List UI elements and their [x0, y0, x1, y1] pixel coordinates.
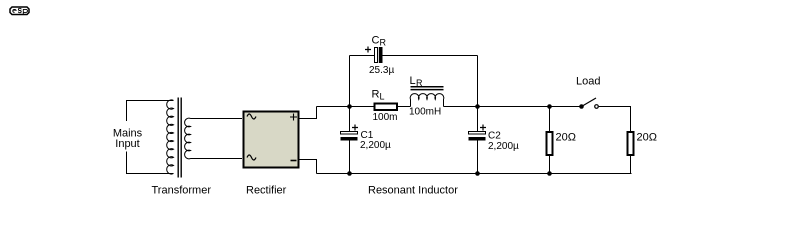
svg-text:R: R [380, 38, 387, 48]
svg-text:Resonant Inductor: Resonant Inductor [368, 185, 458, 197]
svg-text:Transformer: Transformer [152, 185, 212, 197]
logo ESP [10, 7, 29, 15]
svg-text:L: L [380, 92, 385, 102]
inductor LR core [411, 87, 444, 90]
wire secondary to rectifier (bottom) [191, 158, 243, 160]
resistor R1 20 ohm vertical [547, 107, 553, 174]
transformer T1 secondary winding [185, 118, 191, 159]
capacitor CR [365, 47, 383, 64]
resistor RL [375, 104, 398, 111]
svg-text:2,200µ: 2,200µ [488, 141, 519, 152]
capacitor C2 [469, 125, 487, 141]
junction dot top rail C1 [347, 104, 352, 109]
wire rectifier + output [299, 107, 317, 119]
svg-text:R: R [416, 78, 423, 88]
junction dot top rail C2 [475, 104, 480, 109]
junction dot bottom rail R1 [547, 171, 552, 176]
svg-text:2,200µ: 2,200µ [360, 140, 391, 151]
rectifier BR1 [244, 112, 299, 168]
transformer T1 primary winding [167, 100, 174, 174]
svg-text:100m: 100m [373, 112, 398, 123]
svg-text:20Ω: 20Ω [556, 132, 576, 144]
svg-text:100mH: 100mH [409, 107, 441, 118]
resistor R2 20 ohm vertical [628, 132, 634, 174]
wire CR branch left vertical [349, 56, 351, 174]
inductor LR winding [410, 94, 444, 107]
svg-text:Rectifier: Rectifier [246, 185, 287, 197]
svg-text:Load: Load [576, 76, 600, 88]
svg-text:25.3µ: 25.3µ [369, 65, 394, 76]
switch SW1 [579, 98, 598, 109]
capacitor C1 [341, 125, 359, 141]
svg-text:C: C [372, 35, 380, 47]
junction dot top rail R1 [547, 104, 552, 109]
wire rectifier - output [299, 160, 317, 174]
wire bottom rail [317, 173, 632, 175]
svg-text:C2: C2 [488, 131, 501, 142]
svg-text:20Ω: 20Ω [637, 132, 657, 144]
junction dot bottom rail C1 [347, 171, 352, 176]
wire secondary to rectifier (top) [191, 118, 243, 120]
transformer T1 core [178, 98, 181, 178]
wire CR branch right vertical [477, 56, 479, 174]
svg-text:L: L [410, 75, 416, 87]
wire switch to R2 [599, 107, 631, 132]
wire top rail [317, 106, 582, 108]
junction dot bottom rail C2 [475, 171, 480, 176]
wire CR top horizontal [350, 55, 478, 57]
svg-text:Input: Input [115, 138, 139, 150]
svg-text:R: R [372, 89, 380, 101]
wire mains input loop [127, 101, 174, 174]
